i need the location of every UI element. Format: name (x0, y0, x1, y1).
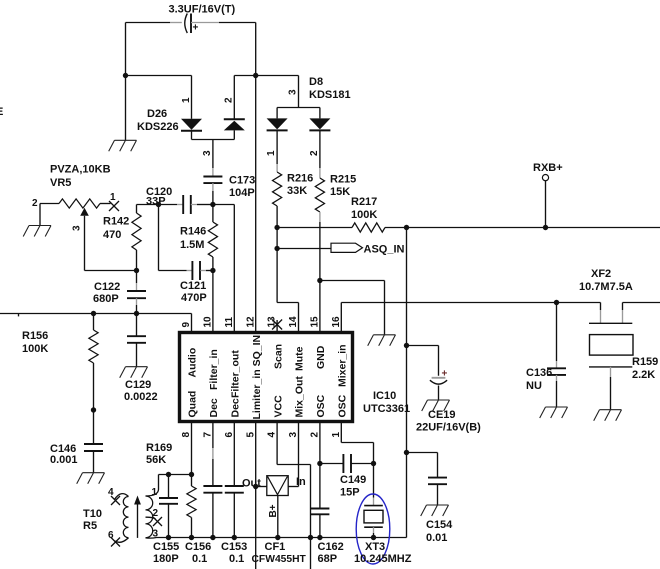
wire jog to pin14 (277, 303, 298, 333)
svg-text:0.001: 0.001 (50, 454, 78, 466)
node rail C156 (210, 535, 215, 540)
wire D8 pin3 drop (298, 76, 300, 108)
tick on audio rail (18, 314, 20, 317)
filter CF1 body (267, 476, 288, 496)
diode D8 unit A (267, 118, 288, 129)
wire RXB stub (545, 181, 547, 228)
svg-text:R146: R146 (180, 226, 206, 238)
wire R156 bottom lead (93, 363, 95, 410)
svg-text:100K: 100K (351, 209, 377, 221)
svg-text:OSC: OSC (315, 394, 327, 417)
svg-text:C136: C136 (526, 367, 552, 379)
ground at VR5 (23, 226, 51, 237)
svg-text:Filter_out: Filter_out (230, 350, 242, 398)
wire supply net horizontal (407, 227, 660, 229)
wire C121 right lead (200, 270, 206, 272)
wire pin6 Dec vertical (233, 422, 235, 487)
wire CF1 bplus lead (277, 496, 279, 538)
svg-text:T10: T10 (83, 508, 102, 520)
svg-text:C149: C149 (340, 474, 366, 486)
signal flag ASQ_IN (331, 243, 363, 252)
svg-text:13: 13 (267, 316, 278, 328)
wire CE19 to gnd (438, 386, 440, 401)
svg-text:7: 7 (203, 432, 214, 438)
svg-text:PVZA,10KB: PVZA,10KB (50, 164, 111, 176)
svg-text:5: 5 (245, 432, 256, 438)
svg-text:1: 1 (152, 487, 158, 498)
svg-text:C173: C173 (229, 175, 255, 187)
capacitor C154 (428, 478, 447, 485)
svg-text:OSC: OSC (337, 394, 349, 417)
svg-text:100K: 100K (22, 343, 48, 355)
svg-text:1: 1 (331, 432, 342, 438)
wire pin8 Quad vertical (191, 422, 193, 475)
wire C154 to gnd (437, 484, 439, 505)
wire right of XF2 (623, 302, 660, 304)
svg-text:Scan: Scan (272, 344, 284, 369)
svg-text:2: 2 (310, 432, 321, 438)
op-amp IC U10 body (180, 333, 353, 422)
wire cap to right vertical (191, 22, 219, 24)
svg-text:Limiter_in SQ_IN: Limiter_in SQ_IN (251, 335, 263, 420)
svg-text:R5: R5 (83, 520, 97, 532)
ground at C146 (77, 473, 105, 484)
node R217 right junction (404, 225, 409, 230)
capacitor C121 (192, 261, 200, 280)
potentiometer VR5 body (59, 199, 100, 208)
svg-text:Filter_in: Filter_in (208, 349, 220, 390)
svg-text:C156: C156 (185, 541, 211, 553)
wire pin2 OSC vertical (319, 422, 321, 464)
wire to C149 (320, 463, 344, 465)
ground at C136 (540, 407, 568, 418)
wire R215 bottom (319, 212, 321, 222)
wire pin3 MixOut vertical (298, 422, 300, 487)
svg-text:KDS226: KDS226 (137, 121, 179, 133)
wire junction to top-left ground (125, 76, 127, 141)
svg-text:Audio: Audio (187, 348, 199, 378)
svg-text:15K: 15K (330, 186, 350, 198)
svg-text:6: 6 (224, 432, 235, 438)
wire C162 bottom (319, 514, 321, 537)
svg-text:C122: C122 (94, 281, 120, 293)
wire ASQ feed (277, 248, 331, 250)
no-connect X on T10 pin6 (111, 538, 120, 547)
svg-text:104P: 104P (229, 187, 255, 199)
svg-text:680P: 680P (93, 293, 119, 305)
svg-text:2.2K: 2.2K (632, 369, 655, 381)
transformer T10 pin3 lead (146, 537, 169, 540)
filter XF2 ground lead (610, 367, 612, 377)
wire left vertical of top cap (125, 23, 127, 76)
resistor R142 (132, 213, 141, 250)
wire node to pin11 elbow (213, 204, 234, 206)
ground at C129 (120, 367, 148, 378)
node rail VCC (308, 535, 313, 540)
transformer T10 pin1 lead (146, 475, 159, 497)
svg-text:3: 3 (288, 89, 299, 95)
node pin8-R169 (189, 472, 194, 477)
svg-text:3: 3 (72, 225, 83, 231)
svg-text:8: 8 (181, 432, 192, 438)
wire C136 lead (556, 303, 558, 362)
svg-text:16: 16 (331, 316, 342, 328)
wire pin1 OSC route (341, 422, 373, 464)
capacitor C162 (310, 509, 329, 515)
diode D8 unit B (309, 118, 330, 129)
node RXB+ open terminal (542, 175, 548, 181)
capacitor C136 (547, 368, 566, 375)
wire wiper to R142 bottom (85, 270, 137, 272)
node pin2 osc (317, 461, 322, 466)
wire C173 to node (212, 183, 214, 191)
wire pin13 stub (276, 320, 278, 333)
svg-text:Out: Out (242, 478, 261, 490)
transformer T10 pin2 lead (146, 517, 156, 519)
wire C129 to gnd (136, 343, 138, 367)
node osc xtal (371, 461, 376, 466)
wire D26 common bottom (192, 139, 235, 141)
node rail XT3 (371, 535, 376, 540)
capacitor CE19 (432, 377, 446, 379)
highlight ellipse around XT3 (356, 494, 390, 564)
filter XF2 lead out (622, 303, 624, 311)
wire pin11 Filter_out vertical (233, 205, 235, 333)
node R216-R217 (274, 225, 279, 230)
svg-text:0.1: 0.1 (192, 553, 207, 565)
diode D26 unit A (181, 119, 202, 130)
wire D26 pin1 drop (191, 76, 193, 119)
diode D26 unit B (224, 118, 245, 120)
svg-text:NU: NU (526, 380, 542, 392)
filter XF2 lead in (600, 303, 602, 311)
resistor R156 (89, 330, 98, 363)
svg-text:4: 4 (267, 432, 278, 438)
ground at C154 (421, 505, 449, 516)
wire C136 to gnd (556, 375, 558, 381)
svg-text:R217: R217 (351, 196, 377, 208)
wire D26 pin2 drop (233, 76, 235, 119)
wire top net right segment (234, 75, 298, 77)
node C122-C129 (134, 311, 139, 316)
wire C120 right to node (191, 204, 197, 206)
svg-text:B+: B+ (268, 504, 279, 517)
svg-text:33K: 33K (287, 185, 307, 197)
wire B+ rail (169, 537, 407, 539)
svg-text:ASQ_IN: ASQ_IN (364, 244, 405, 256)
wire pin12 SQ_IN long vertical (255, 76, 257, 333)
svg-text:0.1: 0.1 (229, 553, 244, 565)
svg-text:XT3: XT3 (365, 541, 385, 553)
wire CF1 in lead (288, 486, 298, 488)
svg-text:CE19: CE19 (428, 409, 456, 421)
svg-text:Mute: Mute (294, 346, 306, 371)
svg-text:C153: C153 (221, 541, 247, 553)
svg-text:15: 15 (310, 316, 321, 328)
svg-text:Quad: Quad (187, 391, 199, 418)
svg-text:UTC3361: UTC3361 (363, 403, 410, 415)
wire D8-B to R215 (319, 131, 321, 168)
wire pin4 VCC route (277, 422, 310, 569)
wire C149 right (351, 463, 374, 465)
wire R146 leads (212, 205, 214, 271)
capacitor C149 (343, 454, 351, 473)
node C155 top (166, 472, 171, 477)
wire C154 elbow (407, 453, 438, 478)
wire pin16 Mixer_in route (341, 303, 600, 333)
node rail C162 (317, 535, 322, 540)
wire pin9 Audio vertical (191, 314, 193, 333)
svg-text:1: 1 (110, 192, 116, 203)
svg-text:1.5M: 1.5M (180, 239, 204, 251)
no-connect X on T10 pin4 (111, 496, 120, 505)
node wiper-R142-C122 (134, 268, 139, 273)
transformer T10 pin6 lead (115, 538, 129, 543)
svg-text:1: 1 (181, 97, 192, 103)
node pin15 gnd branch (317, 278, 322, 283)
svg-text:470P: 470P (181, 292, 207, 304)
svg-text:0.01: 0.01 (426, 532, 447, 544)
svg-text:R169: R169 (146, 442, 172, 454)
svg-text:2: 2 (32, 198, 38, 209)
no-connect X on T10 pin2 (153, 517, 162, 526)
svg-text:0.0022: 0.0022 (124, 391, 158, 403)
ground at CE19 (422, 400, 450, 411)
svg-text:3: 3 (202, 150, 213, 156)
wire C153 bottom (233, 493, 235, 538)
wire CE19 elbow (407, 346, 439, 376)
svg-text:15P: 15P (340, 487, 360, 499)
ground at XF2 (594, 410, 622, 421)
capacitor C146 (84, 444, 103, 451)
wire supply vertical (406, 228, 408, 538)
wire C162 branch (319, 464, 321, 509)
resistor R146 (208, 222, 217, 257)
capacitor C153 (225, 486, 244, 493)
resistor R169 (187, 486, 196, 518)
svg-text:D26: D26 (147, 108, 167, 120)
ground top-left (109, 140, 137, 151)
svg-text:C154: C154 (426, 519, 453, 531)
node R216-ASQ (274, 246, 279, 251)
svg-text:33P: 33P (146, 196, 166, 208)
wire C121 left lead (159, 270, 187, 272)
wire C121 branch vertical (158, 205, 160, 271)
wire C155 top lead (168, 475, 170, 499)
node R156 branch (91, 311, 96, 316)
svg-text:10: 10 (203, 316, 214, 328)
wire C155 bottom lead (168, 504, 170, 538)
node rail CF1 (275, 535, 280, 540)
node CE19 branch (404, 343, 409, 348)
wire CF1 out lead (256, 486, 267, 488)
svg-text:In: In (296, 476, 306, 488)
node junction top-left (123, 73, 128, 78)
wire pin5 Limiter vertical (255, 422, 257, 569)
svg-text:R216: R216 (287, 173, 313, 185)
svg-text:Dec: Dec (208, 398, 220, 417)
svg-text:C155: C155 (153, 541, 179, 553)
svg-text:68P: 68P (318, 553, 338, 565)
node R146-C121-pin10 (210, 268, 215, 273)
svg-text:Mix_Out: Mix_Out (294, 376, 306, 418)
svg-text:VR5: VR5 (50, 177, 71, 189)
wire gnd elbow (320, 281, 385, 335)
svg-text:10.245MHZ: 10.245MHZ (354, 553, 412, 565)
node junction at cap right (253, 73, 258, 78)
svg-text:2: 2 (309, 150, 320, 156)
node rail C155 (166, 535, 171, 540)
resistor R215 (315, 178, 324, 212)
crystal XT3 (364, 505, 383, 507)
svg-text:3: 3 (288, 432, 299, 438)
capacitor C120 (183, 195, 191, 214)
svg-text:IC10: IC10 (373, 390, 396, 402)
svg-text:10.7M7.5A: 10.7M7.5A (579, 281, 633, 293)
capacitor C173 (203, 177, 222, 184)
svg-text:2: 2 (223, 97, 234, 103)
svg-text:Mixer_in: Mixer_in (337, 344, 349, 387)
wire C122 top lead (136, 271, 138, 284)
svg-text:XF2: XF2 (591, 268, 611, 280)
wire pin10 Filter_in vertical (212, 271, 214, 333)
wire R216 to R217 (277, 227, 352, 229)
capacitor C129 (127, 336, 146, 343)
svg-text:R142: R142 (103, 216, 129, 228)
node on R156-C146 wire (91, 407, 96, 412)
potentiometer VR5 wiper arrow (80, 208, 89, 216)
svg-text:12: 12 (245, 316, 256, 328)
node rail C153 (232, 535, 237, 540)
wire node-A horizontal (137, 204, 178, 206)
node RXB branch (543, 225, 548, 230)
svg-text:Dec: Dec (230, 398, 242, 417)
svg-text:180P: 180P (153, 553, 179, 565)
wire to C146 (93, 410, 95, 444)
resistor R217 (352, 223, 385, 232)
wire pin15 vertical (319, 281, 321, 333)
node C154 branch (404, 450, 409, 455)
wire right vertical of top cap (255, 23, 257, 76)
wire audio rail (0, 313, 192, 315)
wire R169 leads (191, 475, 193, 538)
wire VR5 left lead (40, 203, 59, 205)
transformer T10 primary (123, 497, 128, 538)
svg-text:56K: 56K (146, 454, 166, 466)
wire D26-A cathode (191, 131, 193, 140)
wire C129 top lead (136, 314, 138, 337)
wire D8-A to R216 (276, 131, 278, 164)
no-connect X on pin13 (272, 320, 282, 330)
wire R216 bottom (276, 206, 278, 303)
svg-text:E: E (0, 106, 3, 118)
svg-text:CF1: CF1 (265, 541, 286, 553)
transformer T10 arrow (137, 501, 139, 538)
wire R156 top lead (93, 314, 95, 331)
capacitor C155 (159, 498, 178, 504)
svg-text:CFW455HT: CFW455HT (252, 554, 307, 565)
svg-text:3.3UF/16V(T): 3.3UF/16V(T) (169, 4, 236, 16)
wire pin7 Dec vertical (212, 422, 214, 449)
wire C156 bottom (212, 493, 214, 538)
svg-text:+: + (193, 23, 199, 34)
wire VR5 wiper down (84, 216, 86, 271)
svg-text:D8: D8 (309, 76, 323, 88)
svg-text:VCC: VCC (272, 395, 284, 418)
capacitor C156 (203, 486, 222, 493)
svg-text:RXB+: RXB+ (533, 162, 563, 174)
node CF1 out (253, 484, 258, 489)
svg-text:C121: C121 (180, 280, 206, 292)
wire VR5 right lead (100, 203, 111, 205)
svg-text:470: 470 (103, 229, 121, 241)
capacitor 3.3UF polarized symbol (185, 14, 188, 34)
svg-text:R159: R159 (632, 356, 658, 368)
wire top net left segment (126, 75, 192, 77)
wire C122 bottom lead (136, 298, 138, 305)
resistor R216 (273, 172, 282, 206)
node C136 branch (554, 300, 559, 305)
ground at pin15 net (368, 335, 396, 346)
svg-text:3: 3 (153, 529, 159, 540)
svg-text:R156: R156 (22, 330, 48, 342)
wire quad net horizontal (159, 474, 192, 476)
svg-text:1: 1 (266, 150, 277, 156)
svg-text:14: 14 (288, 316, 299, 328)
svg-text:C162: C162 (318, 541, 344, 553)
wire xtal bottom lead (373, 527, 375, 533)
wire xtal top lead (373, 464, 375, 498)
svg-text:KDS181: KDS181 (309, 89, 351, 101)
node rail R169 (189, 535, 194, 540)
wire R142 bottom lead (136, 250, 138, 271)
svg-text:GND: GND (315, 345, 327, 369)
no-connect X on VR5 pin1 (109, 201, 119, 211)
node at C121 branch (156, 202, 161, 207)
svg-text:9: 9 (181, 322, 192, 328)
wire D8 top tee (277, 108, 320, 119)
wire top-left to cap (126, 22, 171, 24)
svg-text:C129: C129 (125, 379, 151, 391)
wire C146 to gnd (93, 451, 95, 473)
transformer T10 secondary (146, 496, 153, 538)
svg-text:22UF/16V(B): 22UF/16V(B) (416, 422, 481, 434)
wire R217 right (385, 227, 407, 229)
svg-text:R215: R215 (330, 174, 356, 186)
svg-text:11: 11 (224, 316, 235, 327)
wire R142 top lead (136, 205, 138, 214)
node C120-C173-R146 (210, 202, 215, 207)
transformer T10 pin4 lead (115, 494, 129, 500)
wire D26 pin3 down (212, 140, 214, 169)
filter XF2 body (589, 322, 632, 324)
wire VR5 pin2 down (39, 204, 41, 226)
capacitor C122 (127, 291, 146, 298)
wire D26-B lead (233, 130, 235, 139)
